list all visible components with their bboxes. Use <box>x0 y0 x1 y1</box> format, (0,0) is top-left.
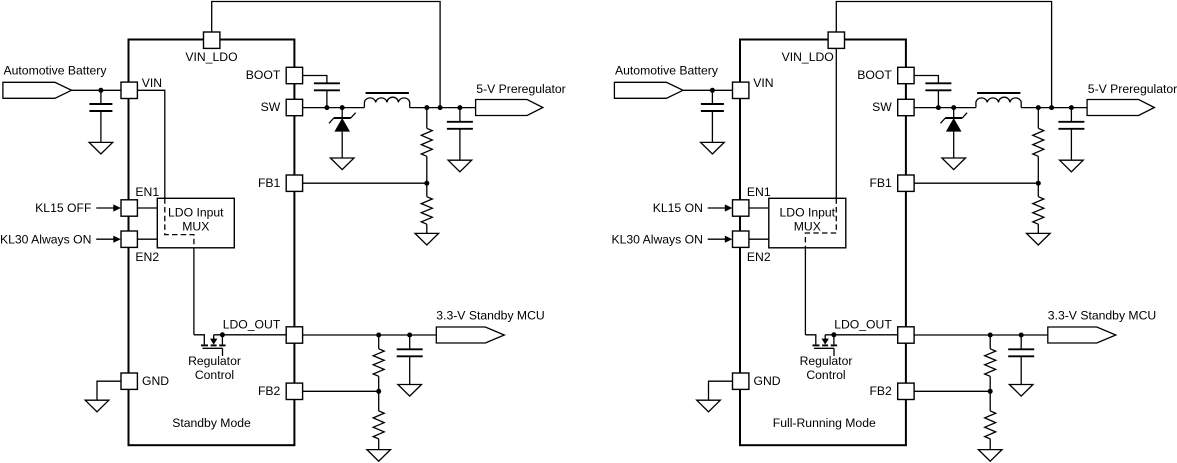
wire mux output to pass FET (left) <box>193 248 195 335</box>
capacitor 3.3-V output (left) <box>409 335 411 349</box>
pin VIN (right) <box>733 82 749 98</box>
svg-text:5-V Preregulator: 5-V Preregulator <box>476 82 565 96</box>
pin SW (left) <box>286 99 302 115</box>
svg-text:BOOT: BOOT <box>857 68 892 82</box>
capacitor boot (right) <box>925 82 951 84</box>
resistor FB1 lower (right) <box>1037 183 1039 197</box>
connector 5-V Preregulator (left) <box>476 100 543 116</box>
junction FET source / LDO_OUT wire (right) <box>831 332 836 337</box>
pin VIN_LDO (right) <box>828 32 844 48</box>
svg-text:Automotive Battery: Automotive Battery <box>615 64 719 78</box>
wire FB2 pin (right) <box>914 390 990 392</box>
pin FB2 (right) <box>898 383 914 399</box>
arrow KL15 ON to EN1 (right) <box>708 207 726 209</box>
svg-text:Full-Running Mode: Full-Running Mode <box>773 416 876 430</box>
junction FB2 node (left) <box>376 389 381 394</box>
svg-text:BOOT: BOOT <box>246 68 281 82</box>
capacitor boot (left) <box>314 82 340 84</box>
block LDO Input MUX (left) <box>157 198 234 248</box>
ground input cap (left) <box>89 142 113 154</box>
capacitor 5-V output (right) <box>1070 108 1072 122</box>
wire EN2 to mux (right) <box>749 238 769 240</box>
junction boot cap / SW line (right) <box>936 105 941 110</box>
svg-text:EN2: EN2 <box>747 250 771 264</box>
svg-text:Regulator: Regulator <box>188 354 241 368</box>
svg-text:SW: SW <box>261 100 281 114</box>
wire SW to inductor (right) <box>914 107 976 109</box>
connector 5-V Preregulator (right) <box>1087 100 1154 116</box>
ground FB1 divider (left) <box>415 233 439 245</box>
wire VIN_LDO to top rail (left) <box>212 2 440 108</box>
svg-text:EN2: EN2 <box>135 250 159 264</box>
wire GND pin to ground (left) <box>97 381 129 400</box>
diode catch D (right) <box>953 108 955 118</box>
ground FB2 divider (right) <box>978 450 1002 462</box>
capacitor input bypass (right) <box>711 90 713 104</box>
wire battery to VIN (right) <box>683 89 740 91</box>
transistor pass FET (left) <box>194 335 204 345</box>
junction FB1 divider / 5-V line (right) <box>1036 105 1041 110</box>
pin GND (right) <box>733 373 749 389</box>
pin EN1 (right) <box>733 200 749 216</box>
svg-text:KL30 Always ON: KL30 Always ON <box>611 232 702 246</box>
wire mux selected path dashed (left) <box>165 198 194 248</box>
wire SW to inductor (left) <box>303 107 365 109</box>
junction output cap / 5-V line (left) <box>457 105 462 110</box>
svg-text:Standby Mode: Standby Mode <box>172 416 251 430</box>
resistor FB1 upper (right) <box>1037 108 1039 129</box>
ground GND pin (left) <box>85 400 109 412</box>
wire EN1 to mux (right) <box>749 207 769 209</box>
arrow KL15 OFF to EN1 (left) <box>96 207 114 209</box>
junction FB2 divider / LDO line (left) <box>376 333 381 338</box>
wire inductor to 5-V output (right) <box>1021 107 1087 109</box>
diode catch D (left) <box>341 108 343 118</box>
transistor pass FET (right) <box>805 335 815 345</box>
junction FB2 node (right) <box>988 389 993 394</box>
svg-text:Automotive Battery: Automotive Battery <box>4 64 108 78</box>
svg-text:Regulator: Regulator <box>800 354 853 368</box>
pin SW (right) <box>898 99 914 115</box>
junction FB2 divider / LDO line (right) <box>988 333 993 338</box>
wire LDO_OUT to 3.3-V output (right) <box>914 334 1048 336</box>
svg-text:Control: Control <box>806 368 845 382</box>
svg-text:FB1: FB1 <box>869 176 892 190</box>
svg-text:VIN: VIN <box>753 76 773 90</box>
pin VIN_LDO (left) <box>204 32 220 48</box>
pin EN1 (left) <box>121 200 137 216</box>
ground catch diode (right) <box>942 158 966 170</box>
wire FB1 pin (right) <box>914 182 1038 184</box>
svg-text:Control: Control <box>195 368 234 382</box>
svg-text:KL15 OFF: KL15 OFF <box>35 201 91 215</box>
svg-text:FB2: FB2 <box>258 384 281 398</box>
wire LDO_OUT to 3.3-V output (left) <box>303 334 437 336</box>
pin EN2 (right) <box>733 231 749 247</box>
junction boot cap / SW line (left) <box>324 105 329 110</box>
junction FB1 node (left) <box>424 181 429 186</box>
resistor FB2 lower (left) <box>378 391 380 411</box>
arrow KL30 to EN2 (right) <box>708 238 726 240</box>
resistor FB1 lower (left) <box>426 183 428 197</box>
svg-text:GND: GND <box>142 374 169 388</box>
ground 3.3-V output cap (right) <box>1009 385 1033 397</box>
svg-text:3.3-V Standby MCU: 3.3-V Standby MCU <box>1048 308 1156 322</box>
wire VIN_LDO to top rail (right) <box>836 2 1051 108</box>
ground FB2 divider (left) <box>367 450 391 462</box>
svg-text:EN1: EN1 <box>135 185 159 199</box>
ground 3.3-V output cap (left) <box>398 385 422 397</box>
svg-text:FB1: FB1 <box>258 176 281 190</box>
wire battery to VIN (left) <box>72 89 129 91</box>
svg-text:MUX: MUX <box>182 220 209 234</box>
wire mux output to pass FET (right) <box>804 248 806 335</box>
wire boot cap to SW node (right) <box>937 90 939 107</box>
capacitor 3.3-V output (right) <box>1020 335 1022 349</box>
junction FB1 divider / 5-V line (left) <box>424 105 429 110</box>
pin FB1 (right) <box>898 175 914 191</box>
arrow KL30 to EN2 (left) <box>96 238 114 240</box>
junction diode / SW line (left) <box>340 105 345 110</box>
junction output cap / 5-V line (right) <box>1069 105 1074 110</box>
svg-text:KL15 ON: KL15 ON <box>653 201 703 215</box>
ground input cap (right) <box>701 142 725 154</box>
wire FB1 pin (left) <box>303 182 427 184</box>
svg-text:LDO_OUT: LDO_OUT <box>834 317 892 331</box>
pin LDO_OUT (right) <box>898 327 914 343</box>
ground FB1 divider (right) <box>1027 233 1051 245</box>
svg-text:VIN_LDO: VIN_LDO <box>782 50 834 64</box>
resistor FB2 upper (left) <box>378 335 380 349</box>
junction diode / SW line (right) <box>951 105 956 110</box>
svg-text:SW: SW <box>872 100 892 114</box>
svg-text:LDO_OUT: LDO_OUT <box>223 317 281 331</box>
junction LDO cap / LDO line (left) <box>407 333 412 338</box>
wire mux selected path dashed (right) <box>805 198 836 248</box>
wire VIN_LDO down to LDO mux (right) <box>835 48 837 198</box>
wire EN2 to mux (left) <box>138 238 158 240</box>
pin BOOT (left) <box>286 67 302 83</box>
ground 5-V output cap (left) <box>448 160 472 172</box>
pin FB1 (left) <box>286 175 302 191</box>
svg-text:KL30 Always ON: KL30 Always ON <box>0 232 91 246</box>
junction LDO cap / LDO line (right) <box>1019 333 1024 338</box>
pin FB2 (left) <box>286 383 302 399</box>
resistor FB2 upper (right) <box>989 335 991 349</box>
capacitor input bypass (left) <box>100 90 102 104</box>
inductor L (left) <box>364 97 409 107</box>
connector 3.3-V Standby MCU (left) <box>436 327 504 343</box>
junction top rail / 5-V node (right) <box>1049 105 1054 110</box>
svg-text:3.3-V Standby MCU: 3.3-V Standby MCU <box>436 308 544 322</box>
connector Automotive Battery (left) <box>3 82 72 98</box>
wire VIN to LDO mux (left) <box>138 90 165 198</box>
block LDO Input MUX (right) <box>769 198 846 248</box>
inductor L (right) <box>976 97 1021 107</box>
svg-text:MUX: MUX <box>794 220 821 234</box>
svg-text:5-V Preregulator: 5-V Preregulator <box>1088 82 1177 96</box>
pin VIN (left) <box>121 82 137 98</box>
junction FET source / LDO_OUT wire (left) <box>220 332 225 337</box>
ground GND pin (right) <box>697 400 721 412</box>
capacitor 5-V output (left) <box>459 108 461 122</box>
pin LDO_OUT (left) <box>286 327 302 343</box>
pin BOOT (right) <box>898 67 914 83</box>
wire GND pin to ground (right) <box>709 381 741 400</box>
resistor FB2 lower (right) <box>989 391 991 411</box>
wire FB2 pin (left) <box>303 390 379 392</box>
wire boot cap to SW node (left) <box>326 90 328 107</box>
ground catch diode (left) <box>330 158 354 170</box>
junction battery/input cap (right) <box>710 88 715 93</box>
ground 5-V output cap (right) <box>1060 160 1084 172</box>
resistor FB1 upper (left) <box>426 108 428 129</box>
IC regulator body (right circuit) <box>740 40 906 446</box>
IC regulator body (left circuit) <box>129 40 295 446</box>
connector Automotive Battery (right) <box>614 82 683 98</box>
svg-text:LDO Input: LDO Input <box>168 206 224 220</box>
wire EN1 to mux (left) <box>138 207 158 209</box>
svg-text:VIN: VIN <box>142 76 162 90</box>
connector 3.3-V Standby MCU (right) <box>1048 327 1116 343</box>
pin EN2 (left) <box>121 231 137 247</box>
wire BOOT to boot cap (right) <box>914 76 938 84</box>
svg-text:FB2: FB2 <box>869 384 892 398</box>
svg-text:GND: GND <box>754 374 781 388</box>
wire inductor to 5-V output (left) <box>410 107 476 109</box>
junction battery/input cap (left) <box>98 88 103 93</box>
wire BOOT to boot cap (left) <box>303 76 327 84</box>
junction top rail / 5-V node (left) <box>438 105 443 110</box>
svg-text:VIN_LDO: VIN_LDO <box>185 50 237 64</box>
pin GND (left) <box>121 373 137 389</box>
svg-text:LDO Input: LDO Input <box>780 206 836 220</box>
svg-text:EN1: EN1 <box>747 185 771 199</box>
junction FB1 node (right) <box>1036 181 1041 186</box>
